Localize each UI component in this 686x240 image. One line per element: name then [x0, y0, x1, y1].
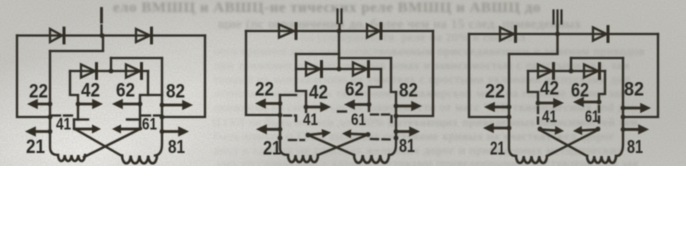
- wire broken mid line left (circuit I): [52, 114, 73, 116]
- wire outer left (circuit II): [246, 31, 280, 115]
- junction at tick (circuit I): [100, 33, 105, 38]
- arrow terminal 82 (circuit I): [162, 100, 193, 110]
- arrow terminal 81 (circuit I): [162, 126, 189, 136]
- diode VD3 (circuit II): [306, 62, 322, 77]
- arrow terminal 81 (circuit III): [623, 124, 649, 134]
- wire bracket top right (circuit I): [127, 118, 140, 120]
- wire inner box top (circuit I): [111, 57, 162, 59]
- wire inner box top (circuit III): [571, 57, 623, 59]
- wire step horizontal (circuit II): [296, 53, 339, 55]
- junction terminal 42 (circuit III): [536, 101, 541, 106]
- junction terminal 62 (circuit III): [597, 100, 602, 105]
- junction on diode row (circuit II): [337, 67, 342, 72]
- arrow terminal 62 (circuit II): [344, 99, 369, 109]
- diode VD2 (circuit II): [367, 24, 381, 39]
- wire riser left (circuit I): [77, 104, 79, 120]
- diode VD4 (circuit III): [584, 64, 600, 79]
- svg-text:82: 82: [399, 81, 418, 102]
- arrow terminal 62 (circuit I): [112, 99, 140, 109]
- svg-text:62: 62: [345, 80, 364, 101]
- wire dashed top-mid (circuit II): [338, 110, 348, 112]
- arrow terminal 42 (circuit III): [538, 98, 564, 108]
- wire tick under label III: [556, 26, 558, 35]
- diode VD3 (circuit III): [538, 64, 554, 79]
- arrow polarity left (circuit II): [308, 129, 331, 138]
- arrow terminal 22 (circuit II): [255, 98, 280, 108]
- arrow polarity right (circuit III): [573, 126, 598, 135]
- svg-text:21: 21: [263, 139, 281, 160]
- junction outer-left join (circuit II): [278, 113, 283, 118]
- wire right vertical into winding (circuit II): [389, 92, 396, 155]
- wire tick under label I: [100, 26, 102, 36]
- junction terminal 62 (circuit II): [367, 102, 372, 107]
- junction terminal 81 (circuit I): [160, 129, 165, 134]
- junction on diode row (circuit III): [569, 69, 574, 74]
- wire crossing diagonal A (circuit III): [540, 130, 587, 156]
- group label III (roman numeral): [554, 11, 562, 24]
- faint bleed-through text from reverse page side: [113, 0, 541, 17]
- wire right vertical into winding (circuit III): [616, 58, 623, 156]
- relay winding left (circuit I): [58, 155, 85, 161]
- wire crossing diagonal B (circuit II): [318, 135, 368, 156]
- junction terminal 21 (circuit II): [278, 127, 283, 132]
- junction terminal 62 (circuit I): [138, 102, 143, 107]
- junction terminal 21 (circuit I): [48, 129, 53, 134]
- wire right vertical into winding (circuit I): [155, 58, 162, 156]
- wire outer right (circuit I): [162, 36, 205, 118]
- svg-text:81: 81: [627, 137, 643, 157]
- arrow terminal 21 (circuit I): [25, 126, 50, 136]
- junction winding-right top (circuit II): [394, 136, 399, 141]
- wire hook row-left to 42 (circuit III): [528, 71, 538, 103]
- wire crossing diagonal A (circuit II): [308, 135, 354, 155]
- junction terminal 81 (circuit II): [394, 129, 399, 134]
- junction outer-right join (circuit I): [160, 115, 165, 120]
- wire inner diode row (circuit III): [528, 70, 605, 72]
- junction outer-right join (circuit III): [621, 115, 626, 120]
- svg-text:62: 62: [571, 81, 589, 102]
- wire hook row-right to terminal 62 (circuit I): [140, 71, 148, 104]
- svg-text:41: 41: [303, 110, 318, 129]
- svg-text:82: 82: [166, 82, 185, 103]
- svg-text:62: 62: [116, 81, 135, 102]
- svg-text:82: 82: [624, 80, 644, 101]
- junction at tick (circuit II): [337, 29, 342, 34]
- wire hook row-right to 62 (circuit II): [369, 69, 381, 111]
- junction on diode row (circuit I): [109, 69, 114, 74]
- junction terminal 41 (circuit III): [538, 127, 543, 132]
- junction outer-right join (circuit II): [394, 114, 399, 119]
- wire crossing diagonal B (circuit III): [547, 130, 598, 156]
- junction terminal 41 (circuit II): [306, 133, 311, 138]
- svg-text:41: 41: [56, 115, 71, 134]
- wire dashed corner (circuit II): [390, 116, 392, 124]
- wire dashed riser 62-61 (circuit III): [598, 106, 600, 126]
- svg-text:61: 61: [585, 107, 599, 126]
- junction terminal 82 (circuit II): [394, 104, 399, 109]
- wire row-left end / hook to 42 (circuit II): [296, 54, 306, 112]
- junction terminal 61 (circuit II): [366, 132, 371, 137]
- wire crossing diagonal A (circuit I): [74, 129, 122, 157]
- arrow polarity right (circuit II): [342, 129, 368, 138]
- junction terminal 42 (circuit I): [76, 102, 81, 107]
- wire outer left (circuit I): [17, 36, 50, 118]
- diode VD4 (circuit I): [126, 64, 142, 79]
- junction terminal 42 (circuit II): [304, 105, 309, 110]
- junction terminal 82 (circuit I): [160, 103, 165, 108]
- group label II (roman numeral): [338, 10, 342, 24]
- svg-text:61: 61: [142, 115, 157, 134]
- wire bracket side left (circuit I): [73, 120, 75, 129]
- svg-text:81: 81: [399, 136, 415, 156]
- svg-text:42: 42: [540, 79, 559, 100]
- svg-text:42: 42: [81, 81, 100, 102]
- wire outer right (circuit III): [623, 34, 658, 117]
- diode VD2 (circuit III): [593, 27, 608, 42]
- junction terminal 22 (circuit III): [507, 105, 512, 110]
- junction outer-left join (circuit III): [507, 115, 512, 120]
- wire inner box mid drop (circuit III): [570, 58, 572, 71]
- wire top bus (circuit II): [246, 30, 433, 32]
- arrow terminal 22 (circuit I): [27, 99, 50, 109]
- wire left vertical into winding (circuit III): [509, 54, 516, 156]
- wire top bus (circuit III): [469, 33, 658, 35]
- diode VD1 (circuit III): [500, 27, 516, 42]
- svg-text:21: 21: [490, 139, 505, 159]
- wire dashed riser 42-41 (circuit III): [537, 107, 539, 126]
- arrow terminal 42 (circuit II): [306, 102, 331, 112]
- wire outer right (circuit II): [396, 31, 433, 116]
- arrow terminal 42 (circuit I): [78, 99, 103, 109]
- wire broken mid line right (circuit I): [142, 114, 161, 116]
- wire inner diode row (circuit II): [296, 68, 381, 70]
- svg-text:21: 21: [26, 137, 45, 158]
- junction terminal 82 (circuit III): [621, 106, 626, 111]
- wire jog row-right to vertical (circuit I): [148, 94, 162, 96]
- wire hook row-left to terminal 42 (circuit I): [70, 71, 78, 104]
- paper shading: [0, 0, 686, 166]
- wire riser right (circuit I): [139, 104, 141, 128]
- svg-text:41: 41: [542, 107, 557, 126]
- arrow terminal 21 (circuit II): [256, 124, 280, 134]
- wire dashed bottom-right (circuit II): [371, 138, 391, 141]
- junction terminal 22 (circuit II): [278, 101, 283, 106]
- group label I (roman numeral): [100, 9, 103, 23]
- arrow terminal 62 (circuit III): [573, 97, 599, 107]
- diode VD1 (circuit II): [279, 24, 296, 39]
- junction outer-left join (circuit I): [48, 115, 53, 120]
- arrow polarity left (circuit III): [540, 126, 564, 135]
- svg-text:42: 42: [309, 83, 328, 104]
- relay winding right (circuit I): [122, 156, 157, 164]
- arrow terminal 81 (circuit II): [396, 126, 420, 136]
- wire inner box top (circuit II): [339, 57, 391, 59]
- svg-text:22: 22: [485, 82, 505, 103]
- arrow terminal 82 (circuit II): [396, 101, 422, 111]
- relay winding right (circuit II): [354, 155, 389, 163]
- diode VD4 (circuit II): [353, 62, 369, 77]
- svg-text:61: 61: [351, 110, 366, 129]
- wire step vertical (circuit II): [338, 31, 340, 69]
- wire inner box mid drop (circuit I): [110, 58, 112, 71]
- junction terminal 21 (circuit III): [507, 126, 512, 131]
- wire inner-right jog (circuit II): [391, 58, 396, 92]
- arrow polarity left (circuit I): [75, 125, 101, 134]
- junction at tick (circuit III): [555, 32, 560, 37]
- wire jog 22-vertical (circuit II): [280, 94, 296, 96]
- wire dashed top-right (circuit II): [371, 113, 391, 115]
- svg-text:22: 22: [29, 82, 48, 103]
- wire left vertical into winding (circuit I): [50, 51, 58, 155]
- svg-text:81: 81: [168, 137, 185, 157]
- junction terminal 81 (circuit III): [621, 127, 626, 132]
- wire inner diode row (circuit I): [70, 70, 148, 72]
- wire step from top junction (circuit I): [50, 36, 103, 52]
- junction winding-left top (circuit II): [278, 136, 283, 141]
- wire hook row-right to 62 (circuit III): [599, 71, 605, 102]
- diode VD2 (circuit I): [136, 28, 152, 43]
- wire bracket top left (circuit I): [74, 118, 88, 120]
- diode VD3 (circuit I): [81, 64, 97, 79]
- wire dashed top-left (circuit II): [284, 116, 296, 122]
- svg-text:22: 22: [255, 80, 274, 101]
- wire left vertical into winding (circuit II): [280, 95, 288, 155]
- wire outer left (circuit III): [469, 34, 509, 117]
- arrow polarity right (circuit I): [112, 125, 140, 134]
- wire crossing diagonal B (circuit I): [84, 129, 141, 158]
- wire dashed bottom-left (circuit II): [289, 139, 304, 141]
- arrow terminal 21 (circuit III): [483, 123, 509, 133]
- junction terminal 22 (circuit I): [48, 102, 53, 107]
- diode VD1 (circuit I): [50, 28, 64, 43]
- relay winding left (circuit II): [288, 155, 318, 162]
- arrow terminal 82 (circuit III): [623, 103, 651, 113]
- relay winding right (circuit III): [587, 156, 616, 163]
- paper grain: [0, 0, 686, 166]
- wire step from top junction (circuit III): [509, 34, 558, 54]
- junction terminal 61 (circuit III): [596, 127, 601, 132]
- wire tick under label II: [338, 25, 340, 32]
- wire top bus (circuit I): [17, 34, 205, 36]
- relay winding left (circuit III): [516, 156, 547, 163]
- paper blotch: [0, 0, 686, 166]
- arrow terminal 22 (circuit III): [484, 102, 509, 112]
